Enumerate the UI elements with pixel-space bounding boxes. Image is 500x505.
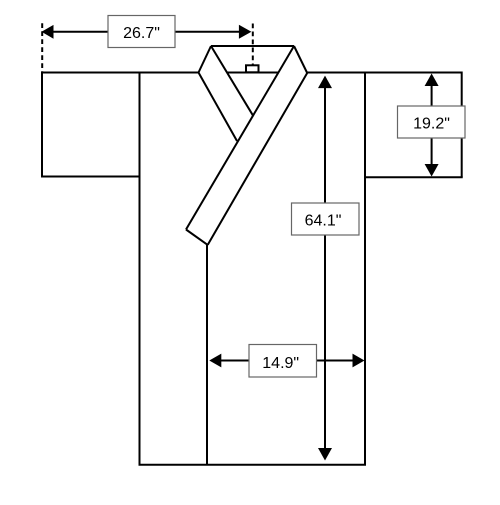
svg-text:26.7": 26.7" xyxy=(123,25,160,42)
svg-text:14.9": 14.9" xyxy=(262,355,299,372)
svg-text:64.1": 64.1" xyxy=(305,213,342,230)
svg-text:19.2": 19.2" xyxy=(413,116,450,133)
